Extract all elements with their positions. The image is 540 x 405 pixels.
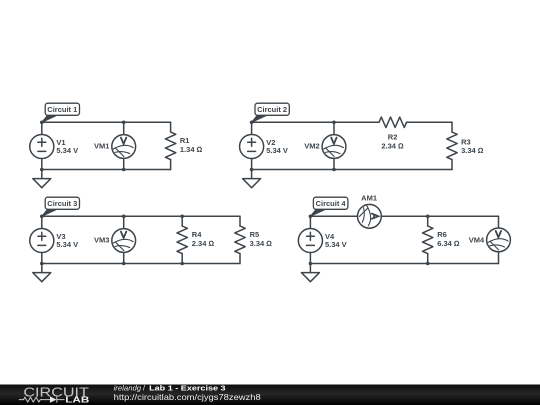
svg-text:Circuit 3: Circuit 3 bbox=[47, 199, 77, 208]
value label V1 5.34 V bbox=[56, 138, 78, 155]
junction: C4 bottom-left node bbox=[309, 262, 313, 266]
wire: C2 top rail left of R2 bbox=[252, 121, 379, 123]
node flag: Circuit 4 bbox=[310, 197, 348, 216]
junction: R6 top bbox=[426, 215, 430, 219]
wire: C4 left V4 terminals bbox=[309, 216, 311, 263]
voltage source V3 bbox=[30, 228, 54, 252]
junction: C1 bottom-left node bbox=[40, 168, 44, 172]
svg-text:Circuit 2: Circuit 2 bbox=[257, 105, 287, 114]
ground (circuit 4) bbox=[301, 264, 319, 282]
footer bar bbox=[0, 385, 540, 405]
junction: VM1 top bbox=[122, 121, 126, 125]
junction: C3 top-left node bbox=[40, 215, 44, 219]
resistor R3 bbox=[447, 132, 457, 160]
junction: C3 bottom-left node bbox=[40, 262, 44, 266]
junction: VM3 top bbox=[122, 215, 126, 219]
value label V2 5.34 V bbox=[266, 138, 288, 155]
svg-text:5.34 V: 5.34 V bbox=[325, 240, 347, 249]
svg-text:irelandg: irelandg bbox=[114, 383, 142, 392]
value label R1 1.34 ohm bbox=[180, 136, 203, 154]
wire: C3 bottom rail bbox=[42, 263, 240, 265]
value label V3 5.34 V bbox=[56, 232, 78, 249]
value label R6 6.34 ohm bbox=[437, 230, 460, 248]
svg-text:http://circuitlab.com/cjygs78z: http://circuitlab.com/cjygs78zewzh8 bbox=[114, 393, 262, 402]
svg-text:3.34 Ω: 3.34 Ω bbox=[250, 239, 273, 248]
value label R4 2.34 ohm bbox=[192, 230, 215, 248]
wire: C3 left V3 terminals bbox=[41, 216, 43, 263]
svg-text:Lab 1 - Exercise 3: Lab 1 - Exercise 3 bbox=[149, 383, 226, 392]
resistor R1 bbox=[165, 132, 175, 160]
svg-text:VM3: VM3 bbox=[94, 235, 109, 244]
svg-text:5.34 V: 5.34 V bbox=[56, 240, 78, 249]
value label R2 2.34 ohm bbox=[381, 132, 404, 150]
resistor R2 bbox=[379, 117, 407, 127]
junction: VM3 bottom bbox=[122, 262, 126, 266]
node flag: Circuit 3 bbox=[42, 197, 80, 216]
wire: C3 VM3 stems bbox=[123, 216, 125, 263]
node flag: Circuit 1 bbox=[42, 103, 80, 122]
svg-text:3.34 Ω: 3.34 Ω bbox=[461, 146, 484, 155]
svg-text:R4: R4 bbox=[192, 230, 202, 239]
resistor R4 bbox=[177, 226, 187, 254]
svg-text:R1: R1 bbox=[180, 136, 190, 145]
svg-text:Circuit 1: Circuit 1 bbox=[47, 105, 77, 114]
junction: C1 top-left node bbox=[40, 121, 44, 125]
voltmeter VM1 bbox=[112, 135, 136, 159]
wire: C2 VM2 stems bbox=[333, 122, 335, 169]
wire: C4 VM4 stems bbox=[498, 216, 500, 263]
wire: C4 top rail right of AM1 bbox=[381, 215, 498, 217]
svg-text:R6: R6 bbox=[437, 230, 447, 239]
voltmeter VM3 bbox=[112, 229, 136, 253]
voltage source V4 bbox=[298, 228, 322, 252]
svg-text:R2: R2 bbox=[388, 132, 398, 141]
ammeter AM1 bbox=[358, 204, 382, 228]
junction: VM2 bottom bbox=[332, 168, 336, 172]
wire: C3 right R5 terminals bbox=[239, 216, 241, 263]
wire: C4 R6 stems bbox=[427, 216, 429, 263]
svg-text:AM1: AM1 bbox=[361, 193, 377, 202]
resistor R5 bbox=[235, 226, 245, 254]
svg-text:VM2: VM2 bbox=[304, 141, 319, 150]
voltage source V1 bbox=[30, 134, 54, 158]
wire: C2 top rail right of R2 bbox=[407, 121, 453, 123]
junction: VM1 bottom bbox=[122, 168, 126, 172]
wire: C3 R4 stems bbox=[181, 216, 183, 263]
junction: C2 top-left node bbox=[250, 121, 254, 125]
ground (circuit 1) bbox=[33, 170, 51, 188]
svg-text:2.34 Ω: 2.34 Ω bbox=[192, 239, 215, 248]
wire: C4 bottom rail bbox=[310, 263, 498, 265]
junction: VM2 top bbox=[332, 121, 336, 125]
voltage source V2 bbox=[240, 134, 264, 158]
svg-text:5.34 V: 5.34 V bbox=[266, 146, 288, 155]
svg-text:2.34 Ω: 2.34 Ω bbox=[381, 141, 404, 150]
voltmeter VM4 bbox=[487, 228, 511, 252]
junction: R4 top bbox=[180, 215, 184, 219]
svg-text:Circuit 4: Circuit 4 bbox=[316, 199, 347, 208]
wire: C3 top rail bbox=[42, 215, 240, 217]
wire: C1 left V1 terminals bbox=[41, 122, 43, 169]
junction: R6 bottom bbox=[426, 262, 430, 266]
wire: C2 bottom rail bbox=[252, 169, 452, 171]
svg-text:5.34 V: 5.34 V bbox=[56, 146, 78, 155]
resistor R6 bbox=[423, 226, 433, 254]
ground (circuit 2) bbox=[243, 170, 261, 188]
svg-text:VM1: VM1 bbox=[94, 141, 109, 150]
wire: C1 top rail bbox=[42, 121, 171, 123]
voltmeter VM2 bbox=[322, 135, 346, 159]
value label V4 5.34 V bbox=[325, 232, 347, 249]
svg-text:6.34 Ω: 6.34 Ω bbox=[437, 239, 460, 248]
wire: C1 VM1 stems bbox=[123, 122, 125, 169]
wire: C4 top rail left of AM1 bbox=[310, 215, 357, 217]
junction: R4 bottom bbox=[180, 262, 184, 266]
value label R3 3.34 ohm bbox=[461, 138, 484, 156]
wire: C1 right R1 terminals bbox=[170, 122, 172, 169]
wire: C2 right R3 terminals bbox=[451, 122, 453, 169]
value label R5 3.34 ohm bbox=[250, 230, 273, 248]
footer logo resistor squiggle and diode bbox=[19, 396, 65, 402]
wire: C2 left V2 terminals bbox=[251, 122, 253, 169]
svg-text:LAB: LAB bbox=[65, 395, 89, 405]
footer title line bbox=[114, 383, 226, 392]
junction: C4 top-left node bbox=[309, 215, 313, 219]
svg-text:1.34 Ω: 1.34 Ω bbox=[180, 145, 203, 154]
svg-text:VM4: VM4 bbox=[469, 235, 485, 244]
wire: C1 bottom rail bbox=[42, 169, 171, 171]
ground (circuit 3) bbox=[33, 264, 51, 282]
svg-text:R5: R5 bbox=[250, 230, 260, 239]
junction: C2 bottom-left node bbox=[250, 168, 254, 172]
node flag: Circuit 2 bbox=[252, 103, 290, 122]
